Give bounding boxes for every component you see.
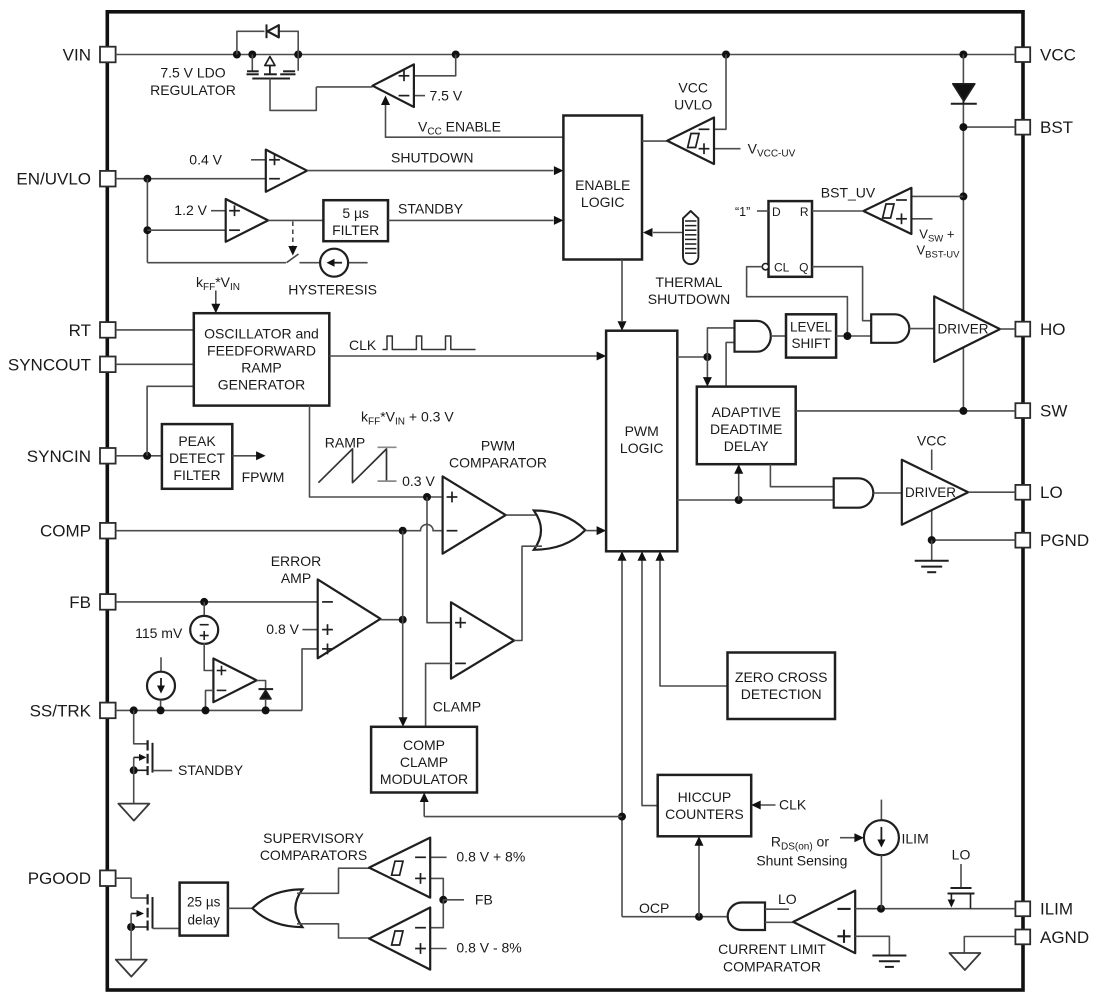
comparator BST_UV [863,188,963,234]
wire current limit minus to ILIM [855,905,1015,913]
svg-text:115 mV: 115 mV [135,625,183,641]
pin LO [1015,483,1062,502]
svg-text:LOGIC: LOGIC [620,440,664,456]
comparator PWM [443,476,506,553]
pin SYNCOUT [8,355,116,374]
svg-text:CLAMP: CLAMP [400,754,448,770]
box ZERO CROSS DETECTION [728,653,836,720]
wire kFF*VIN into oscillator [211,291,220,314]
wire BST rail [962,55,964,128]
wire PGND [928,536,1016,544]
wire ramp to PWM comparator [310,406,443,501]
svg-text:OCP: OCP [639,900,669,916]
svg-text:Q: Q [799,261,808,275]
label kFF*VIN [196,274,240,293]
wire enable to VCC UVLO [642,140,667,142]
pin SS/TRK [30,701,116,720]
svg-text:0.8 V: 0.8 V [266,621,299,637]
svg-text:COMP: COMP [403,737,445,753]
label ILIM source [902,831,929,847]
label THERMAL SHUTDOWN [648,274,730,307]
svg-text:PEAK: PEAK [178,433,216,449]
svg-text:0.8 V - 8%: 0.8 V - 8% [456,939,521,955]
pin COMP [40,522,116,541]
wire delay to OR [228,907,254,909]
svg-text:0.3 V: 0.3 V [402,473,435,489]
svg-text:Shunt Sensing: Shunt Sensing [756,853,847,869]
label OCP [639,900,669,916]
current source HYSTERESIS [320,249,348,277]
svg-text:7.5 V LDO: 7.5 V LDO [160,65,225,81]
wire AND4 to comparator [765,921,793,923]
svg-text:PWM: PWM [625,423,659,439]
wire clamp amp to OR gate [514,546,542,640]
label VVCC-UV [748,140,796,159]
ground AGND [949,937,1015,971]
wire deadtime to AND1 [726,342,734,386]
label VCC ENABLE [418,119,501,138]
gate OR pgood [252,889,302,927]
svg-text:SHIFT: SHIFT [792,336,831,351]
pin SYNCIN [27,447,116,466]
label 0.4 V [189,151,222,167]
svg-text:COMP: COMP [40,522,91,541]
ground LO driver [915,540,949,572]
transistor LDO pass FET [247,55,317,111]
pin BST [1015,118,1073,137]
svg-text:ILIM: ILIM [902,831,929,847]
wire level shift to AND2 [836,332,871,340]
diode SS buffer clamp [257,681,274,711]
wire upper supervisory output [297,868,369,893]
waveform CLK pulses [383,336,476,350]
label 0.8 V [266,621,299,637]
svg-text:COMPARATOR: COMPARATOR [723,959,821,975]
pin PGND [1015,531,1089,550]
svg-text:5 µs: 5 µs [342,205,369,221]
svg-text:PWM: PWM [481,438,515,454]
svg-text:DRIVER: DRIVER [905,485,956,500]
svg-text:AGND: AGND [1040,928,1089,947]
wire SHUTDOWN [307,166,563,175]
svg-text:RAMP: RAMP [325,435,365,451]
svg-text:CLAMP: CLAMP [433,699,481,715]
svg-text:ADAPTIVE: ADAPTIVE [712,404,781,420]
svg-text:COMPARATOR: COMPARATOR [449,455,547,471]
label constant 1 [735,205,750,219]
pin SW [1015,402,1067,421]
wire FPWM output [232,451,265,460]
ground current limit plus [855,936,906,967]
pin VCC [1015,46,1076,65]
svg-text:BST: BST [1040,118,1073,137]
box OSCILLATOR and FEEDFORWARD RAMP GENERATOR [194,313,329,405]
wire SW sense [796,407,1016,415]
label SUPERVISORY COMPARATORS [260,830,367,863]
label 7.5 V LDO REGULATOR [150,65,236,98]
pin HO [1015,320,1065,339]
wire enable logic to PWM logic [618,260,627,331]
svg-text:0.4 V: 0.4 V [189,151,222,167]
label 1.2 V [174,202,207,218]
svg-text:“1”: “1” [735,205,750,219]
label CLK [349,337,377,353]
marker ramp amplitude [378,447,397,481]
wire SYNCOUT [116,363,194,365]
box COMP CLAMP MODULATOR [371,727,477,793]
svg-text:HO: HO [1040,320,1066,339]
comparator CURRENT LIMIT [793,891,855,954]
wire VIN-VCC top rail [116,51,1016,59]
svg-text:CLK: CLK [349,337,377,353]
svg-text:COMPARATORS: COMPARATORS [260,847,367,863]
svg-text:GENERATOR: GENERATOR [218,377,305,393]
box ENABLE LOGIC [563,116,642,260]
svg-text:FB: FB [475,891,493,907]
comparator FB high [369,838,447,900]
pin VIN [63,46,116,65]
diode LDO body diode [237,24,298,54]
wire COMP input [116,524,443,534]
gate AND1 HO [735,321,771,352]
svg-text:FEEDFORWARD: FEEDFORWARD [207,343,316,359]
op-amp COMP clamp amp [451,602,514,678]
wire VCC ENABLE [381,96,563,138]
svg-text:THERMAL: THERMAL [656,274,723,290]
wire CLK to PWM logic [329,352,606,361]
label PWM COMPARATOR [449,438,547,471]
wire DFF R input [812,210,863,212]
amp DRIVER LO [902,450,968,541]
wire SYNCIN input [116,452,162,460]
pin AGND [1015,928,1089,947]
gate AND3 LO [834,478,874,507]
svg-text:DETECT: DETECT [169,450,225,466]
svg-text:R: R [800,205,809,219]
pin RT [69,321,116,340]
wire STANDBY [388,216,563,225]
svg-text:D: D [772,205,781,219]
wire OCP to comp clamp modulator [420,793,622,817]
svg-text:DEADTIME: DEADTIME [710,421,782,437]
wire AND2 to HO driver [909,328,934,330]
svg-text:COUNTERS: COUNTERS [665,806,744,822]
svg-text:CL: CL [774,261,790,275]
label STANDBY (mosfet) [178,762,244,778]
svg-text:VIN: VIN [63,46,91,65]
svg-text:1.2 V: 1.2 V [174,202,207,218]
wire CLK to hiccup [751,801,775,810]
svg-text:EN/UVLO: EN/UVLO [16,170,91,189]
voltage source 115 mV [190,602,218,671]
svg-text:RT: RT [69,321,91,340]
svg-text:DETECTION: DETECTION [741,686,822,702]
wire PWM to LO path [677,464,833,504]
svg-text:HYSTERESIS: HYSTERESIS [288,282,377,298]
box HICCUP COUNTERS [658,775,752,836]
amp DRIVER HO [934,296,1000,362]
comparator 0.4V shutdown [251,150,307,192]
ground PGOOD mosfet [116,960,147,977]
waveform RAMP sawtooth [318,449,386,483]
label BST_UV [821,185,876,201]
wire comparator to filter [268,219,323,221]
label CLAMP [433,699,481,715]
svg-text:SHUTDOWN: SHUTDOWN [648,291,730,307]
label RDS(on) or Shunt Sensing [756,834,847,869]
svg-text:DRIVER: DRIVER [938,322,989,337]
comparator FB low [369,908,447,970]
wire OCP to PWM arrowhead [618,551,627,561]
svg-text:VCC: VCC [678,79,708,95]
wire FB node supervisory [430,896,464,928]
wire HO output [1000,328,1015,330]
svg-text:REGULATOR: REGULATOR [150,82,236,98]
svg-text:25 µs: 25 µs [187,895,221,910]
wire SS to error amp input [302,649,318,711]
svg-text:ENABLE: ENABLE [575,177,630,193]
transistor PGOOD pulldown [127,894,180,959]
svg-text:AMP: AMP [281,570,311,586]
wire FB input [116,598,318,606]
wire deadtime to AND3 [770,464,833,487]
svg-text:UVLO: UVLO [674,97,712,113]
pin EN/UVLO [16,170,115,189]
wire clamp modulator to clamp minus [426,663,451,726]
svg-text:FILTER: FILTER [173,467,220,483]
svg-text:LO: LO [778,891,797,907]
svg-text:ILIM: ILIM [1040,900,1073,919]
wire AND1 to level shift [771,335,786,337]
gate AND2 HO [871,314,909,343]
svg-text:FILTER: FILTER [332,222,379,238]
diode bootstrap VCC-BST [951,84,977,104]
label STANDBY (enable logic) [398,201,464,217]
svg-text:SYNCOUT: SYNCOUT [8,355,91,374]
svg-text:SW: SW [1040,402,1067,421]
wire SYNCIN to oscillator [147,386,194,456]
wire AND3 to LO driver [873,492,902,494]
current source SS charge [147,657,175,710]
wire LO output [968,491,1015,493]
svg-text:SS/TRK: SS/TRK [30,701,92,720]
box 25 us delay [180,883,228,936]
gate OR pwm [534,511,586,550]
wire ramp to clamp comparator [427,497,451,623]
transistor LO current sense switch [948,847,975,909]
wire OCP to hiccup [695,836,704,916]
svg-text:RAMP: RAMP [241,360,281,376]
svg-text:CLK: CLK [779,797,807,813]
current source ILIM [864,800,899,909]
wire PWM to HO path [677,328,734,387]
svg-text:ERROR: ERROR [271,553,322,569]
box PEAK DETECT FILTER [162,424,232,489]
wire OR to PWM logic [585,526,606,535]
wire 1 to D [757,210,769,212]
wire EN/UVLO input [116,175,266,263]
label LO (and gate) [778,891,797,907]
svg-text:SUPERVISORY: SUPERVISORY [263,830,364,846]
svg-text:DELAY: DELAY [724,438,770,454]
wire RT input [116,329,194,331]
svg-text:delay: delay [188,913,221,928]
svg-text:CURRENT LIMIT: CURRENT LIMIT [718,941,826,957]
wire lower supervisory output [297,924,369,938]
pin FB [69,593,115,612]
svg-text:VCC: VCC [1040,46,1076,65]
wire BST to driver rail [959,123,1015,410]
op-amp ERROR AMP [302,579,380,658]
label RAMP [325,435,365,451]
wire hiccup to PWM [638,551,658,805]
svg-text:SYNCIN: SYNCIN [27,447,91,466]
pin ILIM [1015,900,1073,919]
wire DFF CL from level shift node [747,267,848,336]
box 5 us FILTER [323,200,388,241]
svg-text:LOGIC: LOGIC [581,194,625,210]
label ERROR AMP [271,553,322,586]
label FB (supervisory) [475,891,493,907]
svg-text:STANDBY: STANDBY [178,762,244,778]
svg-text:VCC: VCC [917,433,947,449]
label 0.8 V + 8% [456,849,525,865]
wire RDS to ILIM source [840,833,864,842]
wire hysteresis control dashed [288,222,297,256]
box PWM LOGIC [606,331,677,552]
svg-text:FPWM: FPWM [242,469,285,485]
wire OCP net [618,551,728,920]
label SHUTDOWN [391,150,473,166]
svg-text:ZERO CROSS: ZERO CROSS [735,669,828,685]
svg-text:BST_UV: BST_UV [821,185,876,201]
svg-text:HICCUP: HICCUP [678,789,732,805]
wire PGOOD to mosfet [116,878,132,898]
thermal shutdown sensor [643,211,698,264]
label VCC UVLO [674,79,712,112]
transistor STANDBY pulldown [130,710,173,803]
svg-text:SHUTDOWN: SHUTDOWN [391,150,473,166]
label CLK (hiccup) [779,797,807,813]
comparator 7.5V LDO [316,55,455,108]
svg-text:OSCILLATOR and: OSCILLATOR and [204,326,319,342]
label 115 mV [135,625,183,641]
svg-text:LO: LO [1040,483,1063,502]
label kFF*VIN + 0.3 V [361,409,454,428]
label VCC (LO driver) [917,433,947,449]
label VSW + VBST-UV [917,227,961,261]
ground STANDBY mosfet [118,804,149,821]
flip-flop BST UV latch [762,201,812,277]
box ADAPTIVE DEADTIME DELAY [697,387,796,465]
wire buffer feedback [206,690,214,710]
wire DFF Q to HO gate [812,267,871,321]
box LEVEL SHIFT [786,314,836,357]
comparator 1.2V standby [211,199,268,242]
wire zero cross to PWM [656,551,728,686]
wire LO input to AND4 [765,908,789,910]
wire SS/TRK rail [116,706,302,714]
gate AND4 current limit [728,903,765,931]
svg-text:STANDBY: STANDBY [398,201,464,217]
label FPWM [242,469,285,485]
svg-text:PGOOD: PGOOD [28,869,91,888]
label CURRENT LIMIT COMPARATOR [718,941,826,975]
wire error amp output to COMP node [381,531,408,727]
op-amp SS track buffer [213,659,256,703]
pin PGOOD [28,869,116,888]
svg-text:PGND: PGND [1040,531,1089,550]
comparator VCC UVLO [667,55,740,165]
label HYSTERESIS [288,282,377,298]
svg-text:MODULATOR: MODULATOR [380,771,468,787]
svg-text:FB: FB [69,593,91,612]
wire PWM comparator to OR [506,514,544,516]
svg-text:0.8 V + 8%: 0.8 V + 8% [456,849,525,865]
label 0.8 V - 8% [456,939,521,955]
label 0.3 V [402,473,435,489]
svg-text:7.5 V: 7.5 V [430,87,463,103]
svg-text:LO: LO [952,847,971,863]
label 7.5 V [430,87,463,103]
svg-text:LEVEL: LEVEL [790,320,833,335]
wire hysteresis switch [147,254,367,263]
